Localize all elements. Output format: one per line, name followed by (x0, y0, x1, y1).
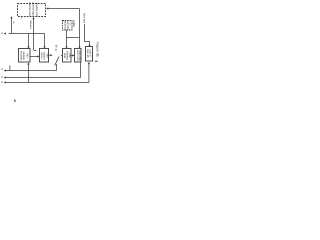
arrowhead left L6 (4, 81, 6, 83)
arrowhead right stub block B (51, 54, 53, 56)
block A (19, 49, 31, 63)
block E (86, 47, 93, 62)
node dot L3 left (2, 33, 3, 34)
arrowhead left L4 (4, 69, 6, 71)
wire U2 to block C (66, 30, 68, 47)
wire vertical to L4 (56, 64, 58, 71)
block B (40, 49, 49, 63)
svg-text:52: 52 (69, 23, 72, 25)
svg-text:8: 8 (14, 99, 16, 103)
svg-text:module 540: module 540 (35, 3, 38, 17)
arrowhead left L5 (4, 76, 6, 78)
svg-text:servo: servo (40, 52, 43, 59)
svg-text:module: module (22, 51, 25, 60)
svg-text:unit core: unit core (78, 51, 81, 62)
arrowhead right C to D (72, 54, 74, 56)
arrowhead down into block A (27, 47, 29, 49)
label 546 at lead line end (34, 49, 37, 52)
arrowhead up into block A bottom (27, 62, 29, 64)
wire block D to L5 (80, 63, 82, 78)
arrowhead down into block E top (88, 45, 90, 47)
wire L3 into block B (44, 34, 46, 48)
arrowhead into U1 right (46, 7, 48, 9)
wire lead into U1 (33, 18, 35, 50)
svg-text:542: 542 (25, 53, 28, 58)
svg-text:data bus: data bus (29, 20, 32, 30)
arrowhead down into block B (43, 47, 45, 49)
svg-text:host bus: host bus (82, 13, 85, 24)
wire diagonal from block B (55, 57, 59, 66)
svg-text:control logic: control logic (32, 2, 35, 17)
wire block A down to L6 (28, 64, 30, 83)
svg-text:51: 51 (20, 17, 23, 19)
wire L6 output (5, 82, 89, 84)
wire L3 into block A (28, 34, 30, 48)
wire arrow C to D (71, 55, 74, 57)
wire L1 feedback to U1 (47, 8, 80, 10)
wire L4 output (5, 70, 57, 72)
arrowhead down into block C (65, 47, 67, 49)
wire stub block B right (49, 54, 51, 56)
wire block E bottom to L6 (88, 63, 90, 83)
svg-text:544: 544 (45, 53, 48, 58)
arrowhead up into U1 (32, 17, 34, 19)
dashed box U2 sub module (63, 21, 73, 31)
dashed box U1 main controller (18, 4, 46, 17)
label dash right of block E (95, 60, 98, 63)
svg-text:data: data (8, 65, 11, 71)
arrowhead up into block E bottom (88, 62, 90, 64)
svg-text:Figure 8b: Figure 8b (95, 42, 99, 56)
wire vertical into block D (79, 9, 81, 48)
svg-text:unit: unit (68, 53, 71, 57)
arrowhead up stub left (10, 16, 12, 18)
arrowhead left L3 (4, 32, 6, 34)
wire feed to block E (85, 24, 90, 46)
wire branch y38 (67, 37, 80, 39)
node dot L4 left (2, 69, 3, 70)
wire arrow A to B (30, 56, 38, 58)
arrowhead right A to B (37, 55, 39, 57)
svg-text:encoder: encoder (20, 51, 23, 61)
wire L3 arrow stub left (5, 33, 6, 35)
block C (63, 49, 72, 63)
wire L3 bus horizontal (9, 33, 45, 35)
svg-text:buffer: buffer (72, 21, 75, 28)
svg-text:optical read: optical read (28, 2, 31, 16)
wire stub up left (11, 18, 13, 34)
wire stub into block C left (61, 55, 62, 57)
svg-text:control: control (42, 52, 45, 60)
block D (75, 49, 82, 63)
node dot L6 left (2, 82, 3, 83)
node dot L5 left (2, 77, 3, 78)
wire L5 output (5, 77, 81, 79)
svg-text:unit 57: unit 57 (88, 50, 91, 58)
svg-text:unit 520: unit 520 (66, 20, 69, 30)
arrowhead down into block D (78, 47, 80, 49)
